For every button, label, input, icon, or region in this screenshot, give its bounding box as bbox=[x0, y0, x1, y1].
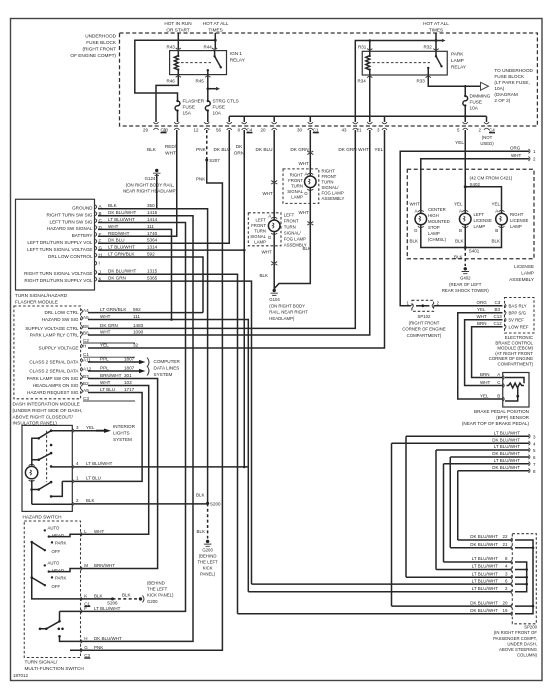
svg-text:SIGNAL: SIGNAL bbox=[250, 234, 266, 239]
hazard pin 3 internal bbox=[51, 430, 72, 432]
row 7 LT BLU/WHT bbox=[444, 463, 530, 465]
svg-text:BLK: BLK bbox=[454, 255, 463, 260]
svg-text:1717: 1717 bbox=[124, 387, 135, 392]
hazard pin 2 BLK wire to S200 bbox=[74, 503, 208, 505]
left license lamp bbox=[459, 213, 471, 225]
svg-text:LAMP: LAMP bbox=[474, 224, 486, 229]
CHMSL lamp bbox=[415, 213, 427, 225]
svg-text:HEADLAMP): HEADLAMP) bbox=[269, 316, 295, 321]
pin 56 at x=229.25 bbox=[227, 122, 232, 130]
svg-text:DRL LOW CTRL: DRL LOW CTRL bbox=[44, 310, 78, 315]
svg-text:10A): 10A) bbox=[494, 86, 504, 91]
splice S207 on PNK wire bbox=[206, 130, 208, 160]
svg-text:RED/WHT: RED/WHT bbox=[165, 144, 177, 155]
svg-text:NEAR RIGHT HEADLAMP): NEAR RIGHT HEADLAMP) bbox=[123, 189, 177, 194]
wire A9 LT BLU 1717 down to hazard pin 1 bbox=[74, 393, 142, 482]
svg-text:LT BLU: LT BLU bbox=[86, 476, 101, 481]
svg-text:20: 20 bbox=[260, 128, 266, 133]
flasher module pin brackets bbox=[95, 205, 97, 281]
DIM pin brackets bbox=[81, 309, 135, 401]
row 4 DK BLU/WHT bbox=[392, 442, 530, 444]
svg-text:PARK: PARK bbox=[451, 52, 464, 57]
riser row8 to bottom row22 bbox=[457, 471, 459, 540]
svg-text:FUSE: FUSE bbox=[183, 105, 196, 110]
svg-text:1315: 1315 bbox=[147, 269, 158, 274]
right license lamp bbox=[496, 213, 508, 225]
svg-text:ORG: ORG bbox=[510, 146, 521, 151]
svg-text:DK GRN: DK GRN bbox=[108, 276, 126, 281]
svg-text:592: 592 bbox=[133, 307, 141, 312]
svg-text:LAMP: LAMP bbox=[451, 58, 464, 63]
svg-text:AUTO: AUTO bbox=[48, 526, 61, 531]
wire HOT AT ALL TIMES to relay pin R44 bbox=[214, 33, 216, 50]
computer data lines system label bbox=[154, 359, 181, 377]
multifunction switch caption bbox=[25, 660, 84, 672]
riser row4 to bottom row20 bbox=[391, 443, 393, 606]
svg-text:SIGNAL/: SIGNAL/ bbox=[322, 185, 340, 190]
lever 1 bbox=[32, 542, 45, 550]
ground G200 symbol (left) bbox=[139, 597, 142, 600]
node junction R33 to dimming fuse bbox=[464, 85, 467, 88]
wire K DK GRN 5365 down to SP200 row 6 bbox=[98, 281, 252, 584]
ign 1 relay U-box bbox=[170, 51, 227, 75]
dimming fuse label bbox=[470, 94, 491, 111]
svg-text:S206: S206 bbox=[107, 600, 118, 605]
svg-text:THE LEFT: THE LEFT bbox=[197, 560, 218, 565]
svg-text:SIGNAL/: SIGNAL/ bbox=[284, 230, 302, 235]
splice S200 bbox=[206, 502, 209, 505]
svg-text:PARK LAMP RLY CTRL: PARK LAMP RLY CTRL bbox=[30, 333, 79, 338]
underhood fuse block caption bbox=[70, 34, 116, 59]
svg-text:1740: 1740 bbox=[147, 231, 158, 236]
left fog assembly label bbox=[284, 212, 307, 247]
pin 5 at x=465.25 bbox=[463, 122, 468, 130]
svg-text:BLK: BLK bbox=[147, 147, 157, 152]
svg-text:PPL: PPL bbox=[100, 366, 109, 371]
svg-text:(NOT: (NOT bbox=[482, 135, 493, 140]
svg-text:G402: G402 bbox=[460, 276, 471, 281]
svg-text:A: A bbox=[268, 214, 271, 219]
svg-text:STRG CTLS: STRG CTLS bbox=[213, 99, 239, 104]
inline connector on right lamp wire bbox=[307, 151, 313, 155]
svg-text:21: 21 bbox=[356, 128, 362, 133]
svg-text:R45: R45 bbox=[196, 79, 205, 84]
left lamp ground wire to G104 bbox=[273, 232, 275, 289]
svg-text:LEFT TURN SW SIG: LEFT TURN SW SIG bbox=[50, 219, 93, 224]
node junction on R44 feed bbox=[214, 39, 217, 42]
wire B8 DK GRN 1483 to fuse pin 43 bbox=[88, 130, 355, 328]
svg-text:WHT: WHT bbox=[477, 314, 487, 319]
svg-text:LT BLU/WHT: LT BLU/WHT bbox=[494, 458, 521, 463]
svg-text:DK BLU/WHT: DK BLU/WHT bbox=[470, 534, 498, 539]
hazard internal dashed pole line bbox=[46, 431, 48, 482]
headlamp selector group 1 bbox=[48, 526, 67, 555]
svg-text:RED/WHT: RED/WHT bbox=[108, 231, 130, 236]
wire ORG SP102 to EBCM C3 bbox=[434, 305, 503, 307]
svg-text:BAS RLY: BAS RLY bbox=[509, 304, 527, 309]
DIM dashed box bbox=[14, 306, 81, 399]
park relay coil bbox=[366, 51, 370, 75]
strg ctls fuse label bbox=[213, 99, 239, 116]
svg-text:PPL: PPL bbox=[100, 357, 109, 362]
svg-text:G: G bbox=[304, 191, 308, 196]
splice S402 bbox=[464, 185, 467, 188]
flasher wire color labels bbox=[108, 203, 137, 280]
svg-text:OR START: OR START bbox=[166, 28, 189, 33]
svg-text:H: H bbox=[84, 636, 87, 641]
svg-text:SP102: SP102 bbox=[418, 314, 432, 319]
svg-text:1414: 1414 bbox=[147, 217, 158, 222]
wire D WHT 111 down to DIM A5 bbox=[98, 229, 172, 319]
svg-text:5V REF: 5V REF bbox=[509, 318, 525, 323]
svg-text:FRONT: FRONT bbox=[322, 174, 337, 179]
svg-text:HOT IN RUN: HOT IN RUN bbox=[164, 21, 191, 26]
svg-text:RIGHT: RIGHT bbox=[510, 212, 524, 217]
svg-text:A: A bbox=[305, 172, 308, 177]
svg-text:(BPP) SENSOR: (BPP) SENSOR bbox=[496, 415, 530, 420]
wire LT BLU/WHT 4 to SP200 bbox=[436, 569, 512, 571]
svg-text:(RIGHT FRONT: (RIGHT FRONT bbox=[409, 320, 440, 325]
wire WHT row 2 to CHMSL bbox=[421, 159, 529, 213]
left turn signal lamp bbox=[268, 220, 280, 232]
svg-text:30: 30 bbox=[297, 128, 303, 133]
svg-text:K: K bbox=[84, 594, 87, 599]
svg-text:FUSE BLOCK: FUSE BLOCK bbox=[494, 74, 525, 79]
svg-text:G200: G200 bbox=[147, 599, 158, 604]
ground G104 label bbox=[269, 297, 308, 321]
inline connector below left lamp bbox=[271, 262, 277, 266]
hazard internal lamp bbox=[25, 466, 37, 478]
wire E RED/WHT 1740 from fuse pin 20 bbox=[98, 130, 177, 236]
hazard switch box bbox=[22, 425, 72, 511]
wire H LT GRN/BLK 592 down to DIM A4 bbox=[98, 257, 203, 313]
svg-text:1483: 1483 bbox=[133, 323, 144, 328]
svg-text:43: 43 bbox=[341, 128, 347, 133]
svg-text:B3: B3 bbox=[495, 307, 501, 312]
svg-text:(UNDER RIGHT SIDE OF DASH,: (UNDER RIGHT SIDE OF DASH, bbox=[13, 408, 83, 413]
switch common bus to pin K bbox=[32, 542, 81, 599]
wire HOT IN RUN to relay pin R43 bbox=[177, 33, 179, 50]
svg-text:BLK: BLK bbox=[108, 203, 118, 208]
hazard pin 1 internal bbox=[51, 481, 72, 496]
svg-text:WHT: WHT bbox=[94, 529, 104, 534]
pin 12 at x=206.75 bbox=[204, 122, 209, 130]
svg-text:WHT: WHT bbox=[358, 147, 369, 152]
wire DK BLU pin 20 to left lamp bbox=[273, 130, 275, 220]
SP102 pin 2 bbox=[432, 304, 434, 308]
svg-text:LEFT: LEFT bbox=[255, 217, 266, 222]
svg-text:A: A bbox=[495, 209, 498, 214]
svg-text:INSULATOR PANEL): INSULATOR PANEL) bbox=[13, 421, 58, 426]
svg-text:LICENSE: LICENSE bbox=[514, 264, 534, 269]
svg-text:1807: 1807 bbox=[124, 366, 135, 371]
svg-text:WHT: WHT bbox=[299, 210, 309, 215]
wire K BLK to S206 bbox=[81, 598, 113, 600]
svg-text:SUPPLY VOLTAGE CTRL: SUPPLY VOLTAGE CTRL bbox=[25, 326, 79, 331]
svg-text:C1: C1 bbox=[83, 352, 89, 357]
multifunction switch dashed box bbox=[24, 521, 80, 658]
pin 3 at x=384.5 bbox=[382, 122, 387, 130]
svg-text:LT BLU/WHT: LT BLU/WHT bbox=[472, 556, 499, 561]
svg-text:TURN: TURN bbox=[254, 228, 266, 233]
pin 29 BLK wire into ground G124 bbox=[155, 169, 158, 172]
svg-text:BLK: BLK bbox=[410, 239, 419, 244]
svg-text:BLK: BLK bbox=[86, 498, 95, 503]
svg-text:DK BLU/WHT: DK BLU/WHT bbox=[94, 636, 122, 641]
svg-text:REAR SHOCK TOWER): REAR SHOCK TOWER) bbox=[442, 288, 489, 293]
svg-text:AUTO: AUTO bbox=[48, 561, 61, 566]
svg-text:DK GRN: DK GRN bbox=[290, 147, 308, 152]
right fog assembly label bbox=[322, 169, 345, 202]
interior lights system label bbox=[113, 424, 136, 442]
svg-text:CLASS 2 SERIAL DATA: CLASS 2 SERIAL DATA bbox=[29, 369, 79, 374]
svg-text:FOG LAMP: FOG LAMP bbox=[284, 236, 306, 241]
svg-text:DK BLU/WHT: DK BLU/WHT bbox=[108, 269, 137, 274]
park relay armature dashed link bbox=[373, 62, 431, 64]
net HOT AT ALL TIMES label (left) bbox=[203, 21, 229, 33]
ground G200 symbol bbox=[206, 540, 209, 543]
wire DK BLU/WHT 21 to SP200 bbox=[450, 547, 512, 549]
svg-text:KICK PANEL): KICK PANEL) bbox=[147, 593, 174, 598]
svg-text:RIGHT TURN SIGNAL VOLTAGE: RIGHT TURN SIGNAL VOLTAGE bbox=[24, 271, 92, 276]
strg ctls fuse bbox=[205, 101, 210, 122]
ign 1 relay name bbox=[230, 51, 246, 63]
wire head contact 2 to pin M bbox=[49, 569, 81, 572]
svg-text:MULTI-FUNCTION SWITCH: MULTI-FUNCTION SWITCH bbox=[25, 666, 84, 671]
svg-text:LT BLU/WHT: LT BLU/WHT bbox=[494, 444, 521, 449]
svg-text:R34: R34 bbox=[358, 79, 367, 84]
svg-text:PARK: PARK bbox=[55, 575, 67, 580]
svg-text:WHT: WHT bbox=[410, 202, 420, 207]
svg-text:DK BLU/WHT: DK BLU/WHT bbox=[470, 600, 498, 605]
computer data lines brace bbox=[147, 358, 149, 376]
wire B DK BLU/WHT 1415 down to switch pin H bbox=[81, 216, 193, 642]
svg-text:WHT: WHT bbox=[100, 314, 111, 319]
splice S401 bbox=[464, 246, 467, 249]
row 3 LT BLU/WHT bbox=[406, 435, 529, 437]
park lamp relay name bbox=[451, 52, 467, 70]
ground G402 bbox=[464, 267, 467, 270]
svg-text:(BEHIND: (BEHIND bbox=[147, 581, 165, 586]
svg-text:RELAY: RELAY bbox=[451, 65, 467, 70]
svg-text:19: 19 bbox=[502, 608, 508, 613]
SP102 pin 1 bbox=[412, 304, 414, 308]
svg-text:R33: R33 bbox=[417, 79, 426, 84]
svg-text:LT GRN/BLK: LT GRN/BLK bbox=[108, 252, 135, 257]
svg-text:LT GRN/BLK: LT GRN/BLK bbox=[100, 307, 127, 312]
svg-text:103: 103 bbox=[124, 380, 132, 385]
svg-text:DK BLU/WHT: DK BLU/WHT bbox=[492, 451, 520, 456]
svg-text:111: 111 bbox=[133, 314, 140, 319]
pin 8 at x=244.25 bbox=[242, 122, 247, 130]
svg-text:56: 56 bbox=[216, 128, 222, 133]
interior lights arrow bbox=[96, 429, 111, 433]
svg-text:LEFT DRL/TURN SUPPLY VOL: LEFT DRL/TURN SUPPLY VOL bbox=[27, 240, 93, 245]
wire head contact to pin L bbox=[49, 534, 81, 536]
svg-text:YEL: YEL bbox=[477, 307, 486, 312]
svg-text:B: B bbox=[459, 228, 462, 233]
svg-text:BLK: BLK bbox=[260, 273, 269, 278]
svg-text:ASSEMBLY: ASSEMBLY bbox=[284, 242, 307, 247]
svg-text:FLASHER MODULE: FLASHER MODULE bbox=[15, 300, 58, 305]
license lamp assembly dashed box bbox=[407, 169, 534, 258]
switch pin brackets bbox=[81, 532, 83, 652]
svg-text:YEL: YEL bbox=[100, 343, 109, 348]
svg-text:LAMP: LAMP bbox=[521, 271, 534, 276]
svg-text:HOT AT ALL: HOT AT ALL bbox=[203, 21, 229, 26]
svg-text:C12: C12 bbox=[494, 321, 503, 326]
svg-text:CORNER OF ENGINE: CORNER OF ENGINE bbox=[402, 327, 446, 332]
svg-text:1090: 1090 bbox=[133, 330, 144, 335]
svg-text:DK BLU/WHT: DK BLU/WHT bbox=[470, 542, 498, 547]
wire R46 to pin 29 bbox=[156, 75, 178, 122]
flasher module box bbox=[16, 199, 95, 290]
wire WHT C13 to BPP C bbox=[465, 320, 503, 386]
svg-text:FUSE BLOCK: FUSE BLOCK bbox=[86, 40, 117, 45]
svg-text:CLASS 2 SERIAL DATA: CLASS 2 SERIAL DATA bbox=[29, 360, 79, 365]
svg-text:C13: C13 bbox=[494, 314, 503, 319]
svg-text:DRL LOW CONTROL: DRL LOW CONTROL bbox=[48, 254, 93, 259]
svg-text:FRONT: FRONT bbox=[251, 223, 266, 228]
svg-text:5364: 5364 bbox=[147, 238, 158, 243]
svg-text:LICENSE: LICENSE bbox=[474, 218, 493, 223]
pin 2 at x=486.5 bbox=[484, 122, 489, 130]
svg-text:YEL: YEL bbox=[454, 202, 463, 207]
svg-text:PASSENGER COMPT,: PASSENGER COMPT, bbox=[493, 636, 537, 641]
svg-text:A: A bbox=[415, 209, 418, 214]
svg-text:WHT: WHT bbox=[108, 224, 119, 229]
svg-text:LEFT: LEFT bbox=[474, 212, 485, 217]
left front turn signal lamp dashed box bbox=[248, 213, 281, 246]
SP200 caption bbox=[493, 625, 538, 658]
svg-text:TURN SIGNAL/: TURN SIGNAL/ bbox=[25, 660, 59, 665]
wire YEL B3 to BPP B bbox=[458, 313, 503, 399]
svg-text:LAMP: LAMP bbox=[510, 224, 522, 229]
svg-text:(REAR OF LEFT: (REAR OF LEFT bbox=[449, 282, 482, 287]
svg-text:RELAY: RELAY bbox=[230, 58, 246, 63]
svg-text:LAMP: LAMP bbox=[291, 195, 303, 200]
svg-text:A: A bbox=[497, 372, 500, 377]
svg-text:OFF: OFF bbox=[52, 584, 61, 589]
svg-text:S200: S200 bbox=[210, 501, 221, 506]
wire H YEL 32 to fuse pin 3 bbox=[88, 130, 385, 348]
flasher module caption bbox=[15, 293, 68, 305]
SP200 internal DK BLU/WHT bus bbox=[515, 540, 533, 614]
svg-text:R46: R46 bbox=[167, 79, 176, 84]
svg-text:350: 350 bbox=[147, 203, 155, 208]
svg-text:BPP S/G: BPP S/G bbox=[509, 311, 527, 316]
svg-text:WHT: WHT bbox=[299, 161, 309, 166]
svg-text:G124: G124 bbox=[145, 176, 156, 181]
svg-text:COMPUTER: COMPUTER bbox=[154, 359, 181, 364]
wire DK BLU/WHT 19 to SP200 bbox=[238, 613, 512, 615]
BPP internal resistor bbox=[506, 383, 524, 388]
svg-text:OFF: OFF bbox=[52, 549, 61, 554]
pin 30 at x=310.3 bbox=[308, 122, 313, 130]
ground G104 bbox=[273, 289, 276, 292]
svg-text:(ON RIGHT BODY: (ON RIGHT BODY bbox=[269, 303, 305, 308]
svg-text:HAZARD SW SIG: HAZARD SW SIG bbox=[42, 317, 79, 322]
svg-text:1415: 1415 bbox=[147, 210, 158, 215]
svg-text:BLK: BLK bbox=[455, 239, 464, 244]
svg-text:BLK: BLK bbox=[122, 593, 131, 598]
riser row3 to bottom row3 bbox=[405, 436, 407, 577]
svg-text:PNK: PNK bbox=[196, 147, 207, 152]
relay pin brackets PARK bbox=[367, 49, 438, 78]
svg-text:WHT: WHT bbox=[511, 153, 521, 158]
DIM circuit numbers bbox=[124, 307, 144, 392]
svg-text:SP200: SP200 bbox=[524, 625, 538, 630]
inline connector on left lamp wire bbox=[271, 181, 277, 185]
svg-text:BATTERY: BATTERY bbox=[72, 233, 93, 238]
svg-text:TURN: TURN bbox=[284, 224, 296, 229]
ground G124 stub bbox=[156, 174, 158, 209]
dashed BLK to G200 (kick panel) bbox=[113, 598, 138, 600]
svg-text:LT BLU/WHT: LT BLU/WHT bbox=[472, 564, 499, 569]
svg-text:RIGHT: RIGHT bbox=[290, 173, 304, 178]
svg-text:WHT: WHT bbox=[100, 330, 111, 335]
wire LT BLU/WHT 3 to SP200 bbox=[406, 576, 512, 578]
svg-text:YEL: YEL bbox=[455, 140, 464, 145]
svg-text:BRAKE CONTROL: BRAKE CONTROL bbox=[495, 340, 533, 345]
wire LT BLU/WHT 8 to SP200 bbox=[444, 561, 512, 563]
svg-text:ELECTRONIC: ELECTRONIC bbox=[505, 335, 533, 340]
DIM pin function labels bbox=[25, 310, 79, 395]
pin 21 at x=369.75 bbox=[367, 122, 372, 130]
dashed BLK S401 to G402 bbox=[464, 248, 466, 267]
svg-text:DK BLU: DK BLU bbox=[108, 238, 125, 243]
svg-text:(RIGHT FRONT: (RIGHT FRONT bbox=[82, 47, 116, 52]
svg-text:RIGHT TURN SW SIG: RIGHT TURN SW SIG bbox=[46, 212, 92, 217]
ign1 relay switch contacts bbox=[208, 51, 221, 75]
arrow stub right of R32 node bbox=[436, 40, 442, 42]
row 5 LT BLU/WHT bbox=[436, 449, 529, 451]
svg-text:YEL: YEL bbox=[86, 425, 95, 430]
row 8 DK BLU/WHT bbox=[458, 470, 529, 472]
svg-text:COLUMN): COLUMN) bbox=[517, 653, 538, 658]
svg-text:ASSEMBLY: ASSEMBLY bbox=[322, 196, 345, 201]
flasher module pin function labels bbox=[24, 206, 93, 283]
park feed bus inside fuse block bbox=[229, 116, 486, 122]
svg-text:S207: S207 bbox=[209, 158, 220, 163]
svg-text:DK BLU/WHT: DK BLU/WHT bbox=[492, 465, 520, 470]
hazard pin 3 YEL to interior lights bbox=[74, 430, 96, 432]
pin 20 at x=274.2 bbox=[272, 122, 277, 130]
dimming fuse bbox=[463, 86, 468, 116]
BPP pin brackets bbox=[503, 375, 505, 401]
svg-text:WHT: WHT bbox=[480, 380, 490, 385]
svg-text:GROUND: GROUND bbox=[72, 206, 93, 211]
wire YEL pin 5 down to S402 bbox=[464, 130, 466, 213]
svg-text:C3: C3 bbox=[495, 300, 501, 305]
riser row6 to bottom row21 bbox=[449, 457, 451, 548]
CHMSL label bbox=[428, 207, 450, 242]
right front turn signal lamp labels bbox=[287, 173, 303, 200]
DIM wire colors bbox=[100, 307, 127, 392]
relay pin brackets IGN1 bbox=[176, 48, 218, 77]
svg-text:G: G bbox=[414, 228, 418, 233]
svg-text:LT BLU/WHT: LT BLU/WHT bbox=[494, 430, 521, 435]
svg-text:1314: 1314 bbox=[147, 245, 158, 250]
wire B6 WHT 1090 to fuse pin 21 bbox=[88, 130, 370, 335]
svg-text:SYSTEM: SYSTEM bbox=[113, 437, 132, 442]
svg-text:111: 111 bbox=[147, 224, 154, 229]
svg-text:FRONT: FRONT bbox=[284, 218, 299, 223]
node S-branch on R45 wire with arrow bbox=[207, 87, 210, 90]
svg-text:DK BLU/WHT: DK BLU/WHT bbox=[108, 210, 137, 215]
svg-text:HAZARD SW SIGNAL: HAZARD SW SIGNAL bbox=[47, 226, 93, 231]
wire ORG row 1 from right body connector bbox=[400, 151, 529, 306]
